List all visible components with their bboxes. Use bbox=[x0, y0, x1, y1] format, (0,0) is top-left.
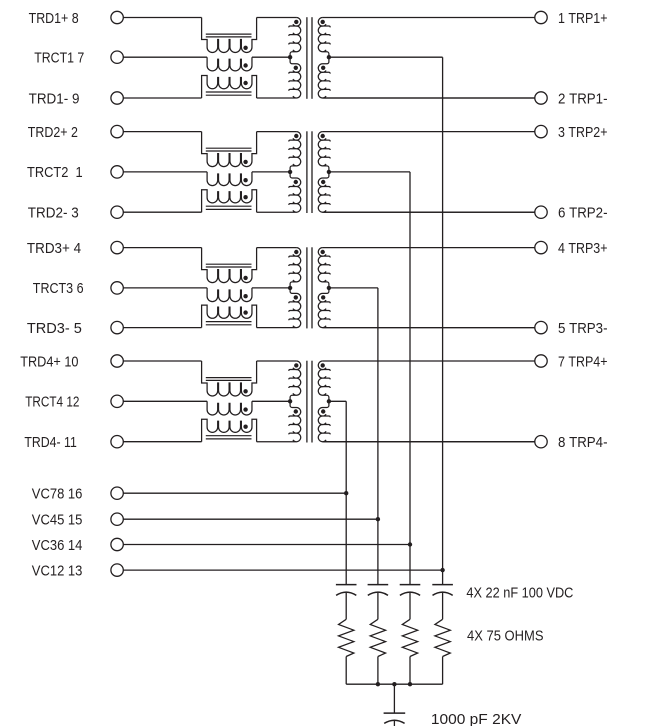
wire choke to primary center tap bbox=[252, 56, 290, 58]
choke L2 winding A (top) bbox=[202, 132, 257, 167]
polarity dot choke L3 winding C bbox=[243, 310, 247, 314]
choke L2 core (bottom) bbox=[206, 206, 252, 209]
wire center-tap vertical drop (channel 3) bbox=[377, 288, 379, 585]
resistor 75 ohm (column 4) bbox=[339, 619, 354, 656]
polarity dot choke L3 winding B bbox=[243, 294, 247, 298]
svg-text:TRCT1 7: TRCT1 7 bbox=[34, 51, 84, 67]
wire capacitor to resistor (column 3) bbox=[377, 593, 379, 620]
pin TRD2+ 2 (left) bbox=[28, 125, 124, 141]
transformer T2 secondary winding bbox=[318, 132, 534, 213]
junction dot T2 primary center tap bbox=[288, 170, 292, 174]
pin 1 TRP1+ (right) bbox=[535, 11, 608, 27]
transformer T2 core bbox=[307, 131, 312, 213]
choke L3 core (bottom) bbox=[206, 322, 252, 325]
wire capacitor to resistor (column 2) bbox=[409, 593, 411, 620]
transformer T4 secondary winding bbox=[318, 361, 534, 442]
wire TRD2- to choke bbox=[123, 211, 201, 213]
capacitor 22 nF (column 3) bbox=[368, 585, 389, 596]
wire TRD3+ to choke bbox=[123, 247, 201, 249]
polarity dot T4 primary (upper) bbox=[294, 363, 298, 367]
choke L1 winding C (bottom) bbox=[202, 76, 257, 99]
wire TRCT4 to choke bbox=[123, 400, 207, 402]
transformer T3 secondary winding bbox=[318, 248, 534, 328]
junction dot T4 primary center tap bbox=[288, 399, 292, 403]
polarity dot T4 secondary (lower) bbox=[321, 409, 325, 413]
svg-text:TRCT4 12: TRCT4 12 bbox=[25, 395, 79, 411]
choke L1 core (top) bbox=[206, 34, 252, 37]
polarity dot choke L1 winding B bbox=[243, 63, 247, 67]
pin 6 TRP2- (right) bbox=[535, 206, 608, 222]
pin 7 TRP4+ (right) bbox=[535, 354, 608, 370]
polarity dot choke L4 winding C bbox=[243, 425, 247, 429]
svg-text:4 TRP3+: 4 TRP3+ bbox=[558, 241, 608, 257]
polarity dot choke L3 winding A bbox=[243, 276, 247, 280]
pin TRD3- 5 (left) bbox=[27, 321, 123, 337]
pin TRD4- 11 (left) bbox=[24, 435, 123, 451]
transformer T1 secondary winding bbox=[318, 18, 534, 99]
wire TRCT2 to choke bbox=[123, 171, 207, 173]
junction dot VC12 node bbox=[440, 568, 444, 572]
wire resistor to bus (column 2) bbox=[409, 657, 411, 685]
pin VC36 14 (left) bbox=[32, 538, 124, 554]
wire TRD1+ to choke bbox=[123, 17, 201, 19]
choke L3 winding B (middle) bbox=[207, 288, 252, 302]
wire capacitor to resistor (column 1) bbox=[442, 593, 444, 620]
transformer T3 primary winding bbox=[257, 248, 301, 328]
wire choke to transformer primary (top) bbox=[257, 17, 297, 19]
svg-text:VC45 15: VC45 15 bbox=[32, 513, 83, 529]
wire T4 secondary center tap to drop node bbox=[329, 400, 346, 402]
svg-text:VC12 13: VC12 13 bbox=[32, 563, 83, 579]
svg-text:6 TRP2-: 6 TRP2- bbox=[558, 206, 608, 222]
junction dot T1 primary center tap bbox=[288, 55, 292, 59]
polarity dot T3 primary (upper) bbox=[294, 250, 298, 254]
choke L3 winding C (bottom) bbox=[202, 305, 257, 328]
pin 3 TRP2+ (right) bbox=[535, 125, 608, 141]
junction dot T4 secondary center tap bbox=[327, 399, 331, 403]
polarity dot T2 primary (lower) bbox=[294, 180, 298, 184]
junction dot VC45 node bbox=[376, 517, 380, 521]
pin 5 TRP3- (right) bbox=[535, 321, 608, 337]
svg-text:TRD2- 3: TRD2- 3 bbox=[28, 206, 79, 222]
wire choke to transformer primary (top) bbox=[257, 247, 297, 249]
polarity dot T4 secondary (upper) bbox=[321, 363, 325, 367]
capacitor 22 nF (column 4) bbox=[336, 585, 357, 596]
wire T2 secondary center tap to drop node bbox=[329, 171, 410, 173]
pin TRCT3 6 (left) bbox=[33, 281, 124, 297]
choke L2 winding B (middle) bbox=[207, 172, 252, 186]
svg-text:VC78 16: VC78 16 bbox=[32, 487, 83, 503]
choke L3 winding A (top) bbox=[202, 248, 257, 283]
transformer T1 core bbox=[307, 17, 312, 99]
polarity dot choke L4 winding B bbox=[243, 407, 247, 411]
junction dot T3 primary center tap bbox=[288, 286, 292, 290]
svg-text:2 TRP1-: 2 TRP1- bbox=[558, 91, 608, 107]
polarity dot T3 secondary (upper) bbox=[321, 250, 325, 254]
polarity dot T1 secondary (upper) bbox=[321, 20, 325, 24]
junction dot VC78 node bbox=[344, 491, 348, 495]
wire bus to 1000 pF capacitor bbox=[393, 684, 395, 713]
wire TRCT3 to choke bbox=[123, 287, 207, 289]
svg-text:TRD1- 9: TRD1- 9 bbox=[29, 91, 80, 107]
svg-text:TRD2+ 2: TRD2+ 2 bbox=[28, 125, 78, 141]
pin TRD1- 9 (left) bbox=[29, 91, 124, 107]
junction dot T1 secondary center tap bbox=[327, 55, 331, 59]
capacitor 22 nF (column 2) bbox=[400, 585, 421, 596]
wire TRD3- to choke bbox=[123, 327, 201, 329]
pin TRD4+ 10 (left) bbox=[20, 354, 123, 370]
pin TRD1+ 8 (left) bbox=[29, 11, 124, 27]
wire resistor to bus (column 4) bbox=[345, 657, 347, 685]
svg-text:TRCT3 6: TRCT3 6 bbox=[33, 281, 84, 297]
polarity dot choke L1 winding C bbox=[243, 81, 247, 85]
wire VC36 to node bbox=[123, 544, 410, 546]
wire VC12 to node bbox=[123, 569, 442, 571]
wire choke to transformer primary (top) bbox=[257, 360, 297, 362]
choke L4 core (top) bbox=[206, 378, 252, 381]
pin VC45 15 (left) bbox=[32, 513, 124, 529]
svg-text:5 TRP3-: 5 TRP3- bbox=[558, 321, 608, 337]
polarity dot T1 primary (lower) bbox=[294, 66, 298, 70]
choke L4 winding C (bottom) bbox=[202, 419, 257, 442]
svg-text:VC36 14: VC36 14 bbox=[32, 538, 83, 554]
choke L4 core (bottom) bbox=[206, 436, 252, 439]
resistor 75 ohm (column 2) bbox=[402, 619, 417, 656]
wire capacitor to resistor (column 4) bbox=[345, 593, 347, 620]
wire resistor to bus (column 3) bbox=[377, 657, 379, 685]
svg-text:TRCT2 1: TRCT2 1 bbox=[27, 165, 83, 181]
polarity dot T2 secondary (lower) bbox=[321, 180, 325, 184]
wire choke to primary center tap bbox=[252, 171, 290, 173]
junction dot VC36 node bbox=[408, 542, 412, 546]
wire choke to primary center tap bbox=[252, 400, 290, 402]
wire TRD4- to choke bbox=[123, 441, 201, 443]
pin 2 TRP1- (right) bbox=[535, 91, 608, 107]
pin 4 TRP3+ (right) bbox=[535, 241, 608, 257]
wire secondary top to pin 4 bbox=[323, 247, 535, 249]
wire secondary bottom to pin 6 bbox=[323, 211, 535, 213]
transformer T1 primary winding bbox=[257, 18, 301, 99]
wire TRD4+ to choke bbox=[123, 360, 201, 362]
resistor 75 ohm (column 1) bbox=[435, 619, 450, 656]
pin TRD3+ 4 (left) bbox=[27, 241, 123, 257]
pin TRD2- 3 (left) bbox=[28, 206, 124, 222]
svg-text:8 TRP4-: 8 TRP4- bbox=[558, 435, 608, 451]
junction dot on bus 3 bbox=[408, 682, 412, 686]
resistor 75 ohm (column 3) bbox=[370, 619, 385, 656]
choke L3 core (top) bbox=[206, 264, 252, 267]
svg-text:3 TRP2+: 3 TRP2+ bbox=[558, 125, 608, 141]
capacitor 1000 pF 2KV bbox=[384, 713, 406, 726]
svg-text:4X 22 nF 100 VDC: 4X 22 nF 100 VDC bbox=[466, 585, 573, 601]
wire secondary top to pin 1 bbox=[323, 17, 535, 19]
pin TRCT1 7 (left) bbox=[34, 51, 123, 67]
svg-text:4X 75 OHMS: 4X 75 OHMS bbox=[467, 628, 544, 644]
wire center-tap vertical drop (channel 2) bbox=[409, 172, 411, 585]
choke L2 winding C (bottom) bbox=[202, 190, 257, 213]
polarity dot T4 primary (lower) bbox=[294, 409, 298, 413]
svg-text:1000 pF 2KV: 1000 pF 2KV bbox=[431, 712, 522, 726]
wire secondary bottom to pin 2 bbox=[323, 97, 535, 99]
svg-text:1 TRP1+: 1 TRP1+ bbox=[558, 11, 608, 27]
wire choke to transformer primary (top) bbox=[257, 131, 297, 133]
transformer T4 core bbox=[307, 361, 312, 443]
polarity dot choke L2 winding C bbox=[243, 195, 247, 199]
choke L1 core (bottom) bbox=[206, 92, 252, 95]
wire VC45 to node bbox=[123, 518, 378, 520]
transformer T2 primary winding bbox=[257, 132, 301, 213]
choke L1 winding B (middle) bbox=[207, 57, 252, 71]
wire T3 secondary center tap to drop node bbox=[329, 287, 378, 289]
wire center-tap vertical drop (channel 1) bbox=[442, 57, 444, 584]
pin VC12 13 (left) bbox=[32, 563, 124, 579]
wire TRCT1 to choke bbox=[123, 56, 207, 58]
polarity dot T2 secondary (upper) bbox=[321, 134, 325, 138]
polarity dot choke L4 winding A bbox=[243, 389, 247, 393]
junction dot on bus 2 bbox=[392, 682, 396, 686]
polarity dot choke L2 winding A bbox=[243, 160, 247, 164]
transformer T3 core bbox=[307, 247, 312, 328]
svg-text:7 TRP4+: 7 TRP4+ bbox=[558, 354, 608, 370]
svg-text:TRD3- 5: TRD3- 5 bbox=[27, 321, 82, 337]
wire center-tap vertical drop (channel 4) bbox=[345, 401, 347, 584]
wire choke to primary center tap bbox=[252, 287, 290, 289]
polarity dot T3 primary (lower) bbox=[294, 295, 298, 299]
pin 8 TRP4- (right) bbox=[535, 435, 608, 451]
wire secondary bottom to pin 8 bbox=[323, 441, 535, 443]
svg-text:TRD4+ 10: TRD4+ 10 bbox=[20, 354, 78, 370]
polarity dot choke L1 winding A bbox=[243, 46, 247, 50]
wire secondary bottom to pin 5 bbox=[323, 327, 535, 329]
choke L4 winding B (middle) bbox=[207, 401, 252, 415]
bus wire joining resistors bbox=[346, 683, 442, 685]
pin VC78 16 (left) bbox=[32, 487, 124, 503]
junction dot T2 secondary center tap bbox=[327, 170, 331, 174]
wire TRD1- to choke bbox=[123, 97, 201, 99]
wire resistor to bus (column 1) bbox=[442, 657, 444, 685]
junction dot on bus 1 bbox=[376, 682, 380, 686]
wire T1 secondary center tap to drop node bbox=[329, 56, 443, 58]
polarity dot T1 primary (upper) bbox=[294, 20, 298, 24]
wire secondary top to pin 7 bbox=[323, 360, 535, 362]
transformer T4 primary winding bbox=[257, 361, 301, 442]
svg-text:TRD4- 11: TRD4- 11 bbox=[24, 435, 76, 451]
pin TRCT4 12 (left) bbox=[25, 395, 123, 411]
polarity dot T2 primary (upper) bbox=[294, 134, 298, 138]
polarity dot T1 secondary (lower) bbox=[321, 66, 325, 70]
junction dot T3 secondary center tap bbox=[327, 286, 331, 290]
polarity dot T3 secondary (lower) bbox=[321, 295, 325, 299]
wire VC78 to node bbox=[123, 492, 346, 494]
wire TRD2+ to choke bbox=[123, 131, 201, 133]
svg-text:TRD3+ 4: TRD3+ 4 bbox=[27, 241, 81, 257]
choke L4 winding A (top) bbox=[202, 361, 257, 396]
choke L2 core (top) bbox=[206, 148, 252, 151]
polarity dot choke L2 winding B bbox=[243, 178, 247, 182]
svg-text:TRD1+ 8: TRD1+ 8 bbox=[29, 11, 79, 27]
choke L1 winding A (top) bbox=[202, 18, 257, 53]
capacitor 22 nF (column 1) bbox=[432, 585, 453, 596]
pin TRCT2 1 (left) bbox=[27, 165, 123, 181]
wire secondary top to pin 3 bbox=[323, 131, 535, 133]
